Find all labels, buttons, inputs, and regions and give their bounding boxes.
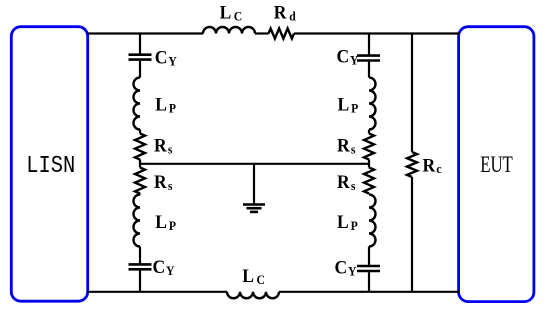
wire middle horizontal <box>140 163 369 165</box>
svg-text:CY: CY <box>155 47 177 68</box>
resistor Rd <box>269 29 295 39</box>
svg-text:LP: LP <box>155 212 176 233</box>
inductor LP right upper <box>369 78 376 130</box>
ground <box>243 164 265 212</box>
capacitor CY left top <box>129 55 152 60</box>
svg-text:Rs: Rs <box>337 172 356 193</box>
wire bottom from LISN to LC <box>87 291 227 293</box>
wire top between LC and Rd <box>255 32 269 34</box>
wire right tiny stem <box>368 194 370 195</box>
svg-text:Rs: Rs <box>337 135 356 156</box>
wire right branch top stem <box>368 34 370 56</box>
svg-text:LISN: LISN <box>26 151 75 179</box>
wire right stem LP to CY <box>368 247 370 266</box>
wire left branch top stem <box>139 34 141 55</box>
EUT box <box>459 27 534 302</box>
inductor LP right lower <box>369 195 376 247</box>
wire right stem across middle <box>368 160 370 168</box>
LISN box <box>11 27 87 302</box>
svg-text:CY: CY <box>337 46 359 67</box>
inductor LP left upper <box>134 78 141 130</box>
svg-text:Rc: Rc <box>423 155 443 176</box>
capacitor CY right top <box>357 56 380 61</box>
svg-text:CY: CY <box>335 257 357 278</box>
svg-text:LC: LC <box>242 266 265 287</box>
wire top from LISN to LC <box>87 32 203 34</box>
svg-text:CY: CY <box>153 257 175 278</box>
svg-text:EUT: EUT <box>480 153 513 178</box>
inductor LC top <box>203 27 255 34</box>
resistor Rs left lower <box>135 168 145 194</box>
capacitor CY right bottom <box>357 266 380 271</box>
wire right stem CY to LP <box>368 62 370 78</box>
wire Rc branch upper <box>411 34 413 153</box>
svg-text:Rs: Rs <box>154 172 173 193</box>
svg-text:LC: LC <box>220 2 243 23</box>
wire bottom from LC to EUT <box>279 291 459 293</box>
wire Rc branch lower <box>411 177 413 292</box>
svg-text:LP: LP <box>338 94 359 115</box>
wire left stem LP to CY <box>139 247 141 265</box>
wire left stem LP to Rs <box>139 130 141 134</box>
resistor Rs right lower <box>364 168 374 194</box>
resistor Rs left upper <box>135 134 145 160</box>
wire left stem CY to bottom <box>139 271 141 292</box>
resistor Rs right upper <box>364 134 374 160</box>
svg-text:LP: LP <box>337 212 358 233</box>
wire left tiny stem <box>139 194 141 195</box>
wire right stem LP to Rs <box>368 130 370 134</box>
wire top from Rd to EUT <box>294 32 459 34</box>
resistor Rc <box>407 152 417 177</box>
inductor LC bottom <box>227 292 279 299</box>
wire left stem across middle <box>139 160 141 168</box>
svg-text:LP: LP <box>155 94 176 115</box>
inductor LP left lower <box>134 195 141 247</box>
wire left stem CY to LP <box>139 61 141 78</box>
svg-text:Rs: Rs <box>154 135 173 156</box>
capacitor CY left bottom <box>129 264 152 269</box>
svg-text:Rd: Rd <box>274 2 296 23</box>
wire right stem CY to bottom <box>368 272 370 292</box>
